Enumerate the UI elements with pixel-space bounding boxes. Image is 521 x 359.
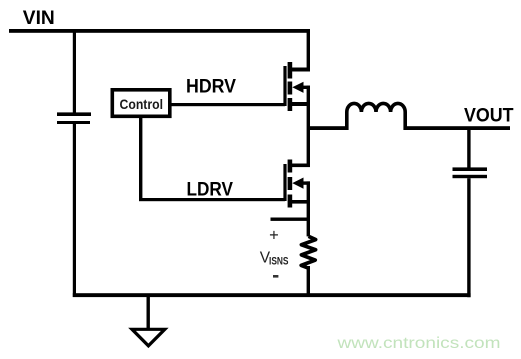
wire top VIN rail <box>9 29 310 33</box>
wire bottom ground rail <box>73 293 471 297</box>
wire Q1 source / switch node vertical down to Q2 drain <box>307 86 310 167</box>
wire ground stub <box>147 297 150 330</box>
svg-text:VOUT: VOUT <box>464 105 514 126</box>
svg-text:+: + <box>269 227 279 245</box>
node VISNS label <box>260 249 289 267</box>
svg-text:VIN: VIN <box>23 8 55 29</box>
ground <box>132 329 165 346</box>
wire switch node horizontal to inductor <box>307 126 347 130</box>
svg-text:Control: Control <box>120 96 164 112</box>
wire inductor to VOUT <box>405 126 510 130</box>
wire output cap to ground rail <box>467 178 470 297</box>
node minus label <box>273 275 278 278</box>
transistor Q1 high-side NMOS <box>283 62 310 111</box>
transistor Q2 low-side NMOS <box>283 160 310 208</box>
svg-text:LDRV: LDRV <box>187 179 234 200</box>
wire resistor bottom to ground rail <box>307 266 310 297</box>
inductor L1 <box>347 103 405 130</box>
capacitor C1 input cap <box>57 112 91 124</box>
wire left vertical from VIN rail to input cap <box>73 29 76 113</box>
wire LDRV horizontal to Q2 gate <box>139 198 285 201</box>
wire VOUT down to output cap <box>467 130 470 168</box>
wire Q2 source vertical down to sense resistor <box>307 181 310 236</box>
resistor R1 current sense <box>301 236 315 267</box>
wire left vertical from input cap to ground rail <box>73 124 76 297</box>
wire Q1 drain to VIN rail <box>307 31 310 71</box>
svg-text:ISNS: ISNS <box>269 256 289 268</box>
svg-text:HDRV: HDRV <box>186 77 236 98</box>
wire Kelvin sense stub <box>271 218 310 221</box>
control block U1 "Control" <box>112 90 170 117</box>
wire HDRV from Control to Q1 gate <box>171 103 285 106</box>
svg-text:www.cntronics.com: www.cntronics.com <box>336 335 500 352</box>
wire Control bottom down to LDRV wire <box>139 118 142 200</box>
capacitor C2 output cap <box>453 167 488 178</box>
